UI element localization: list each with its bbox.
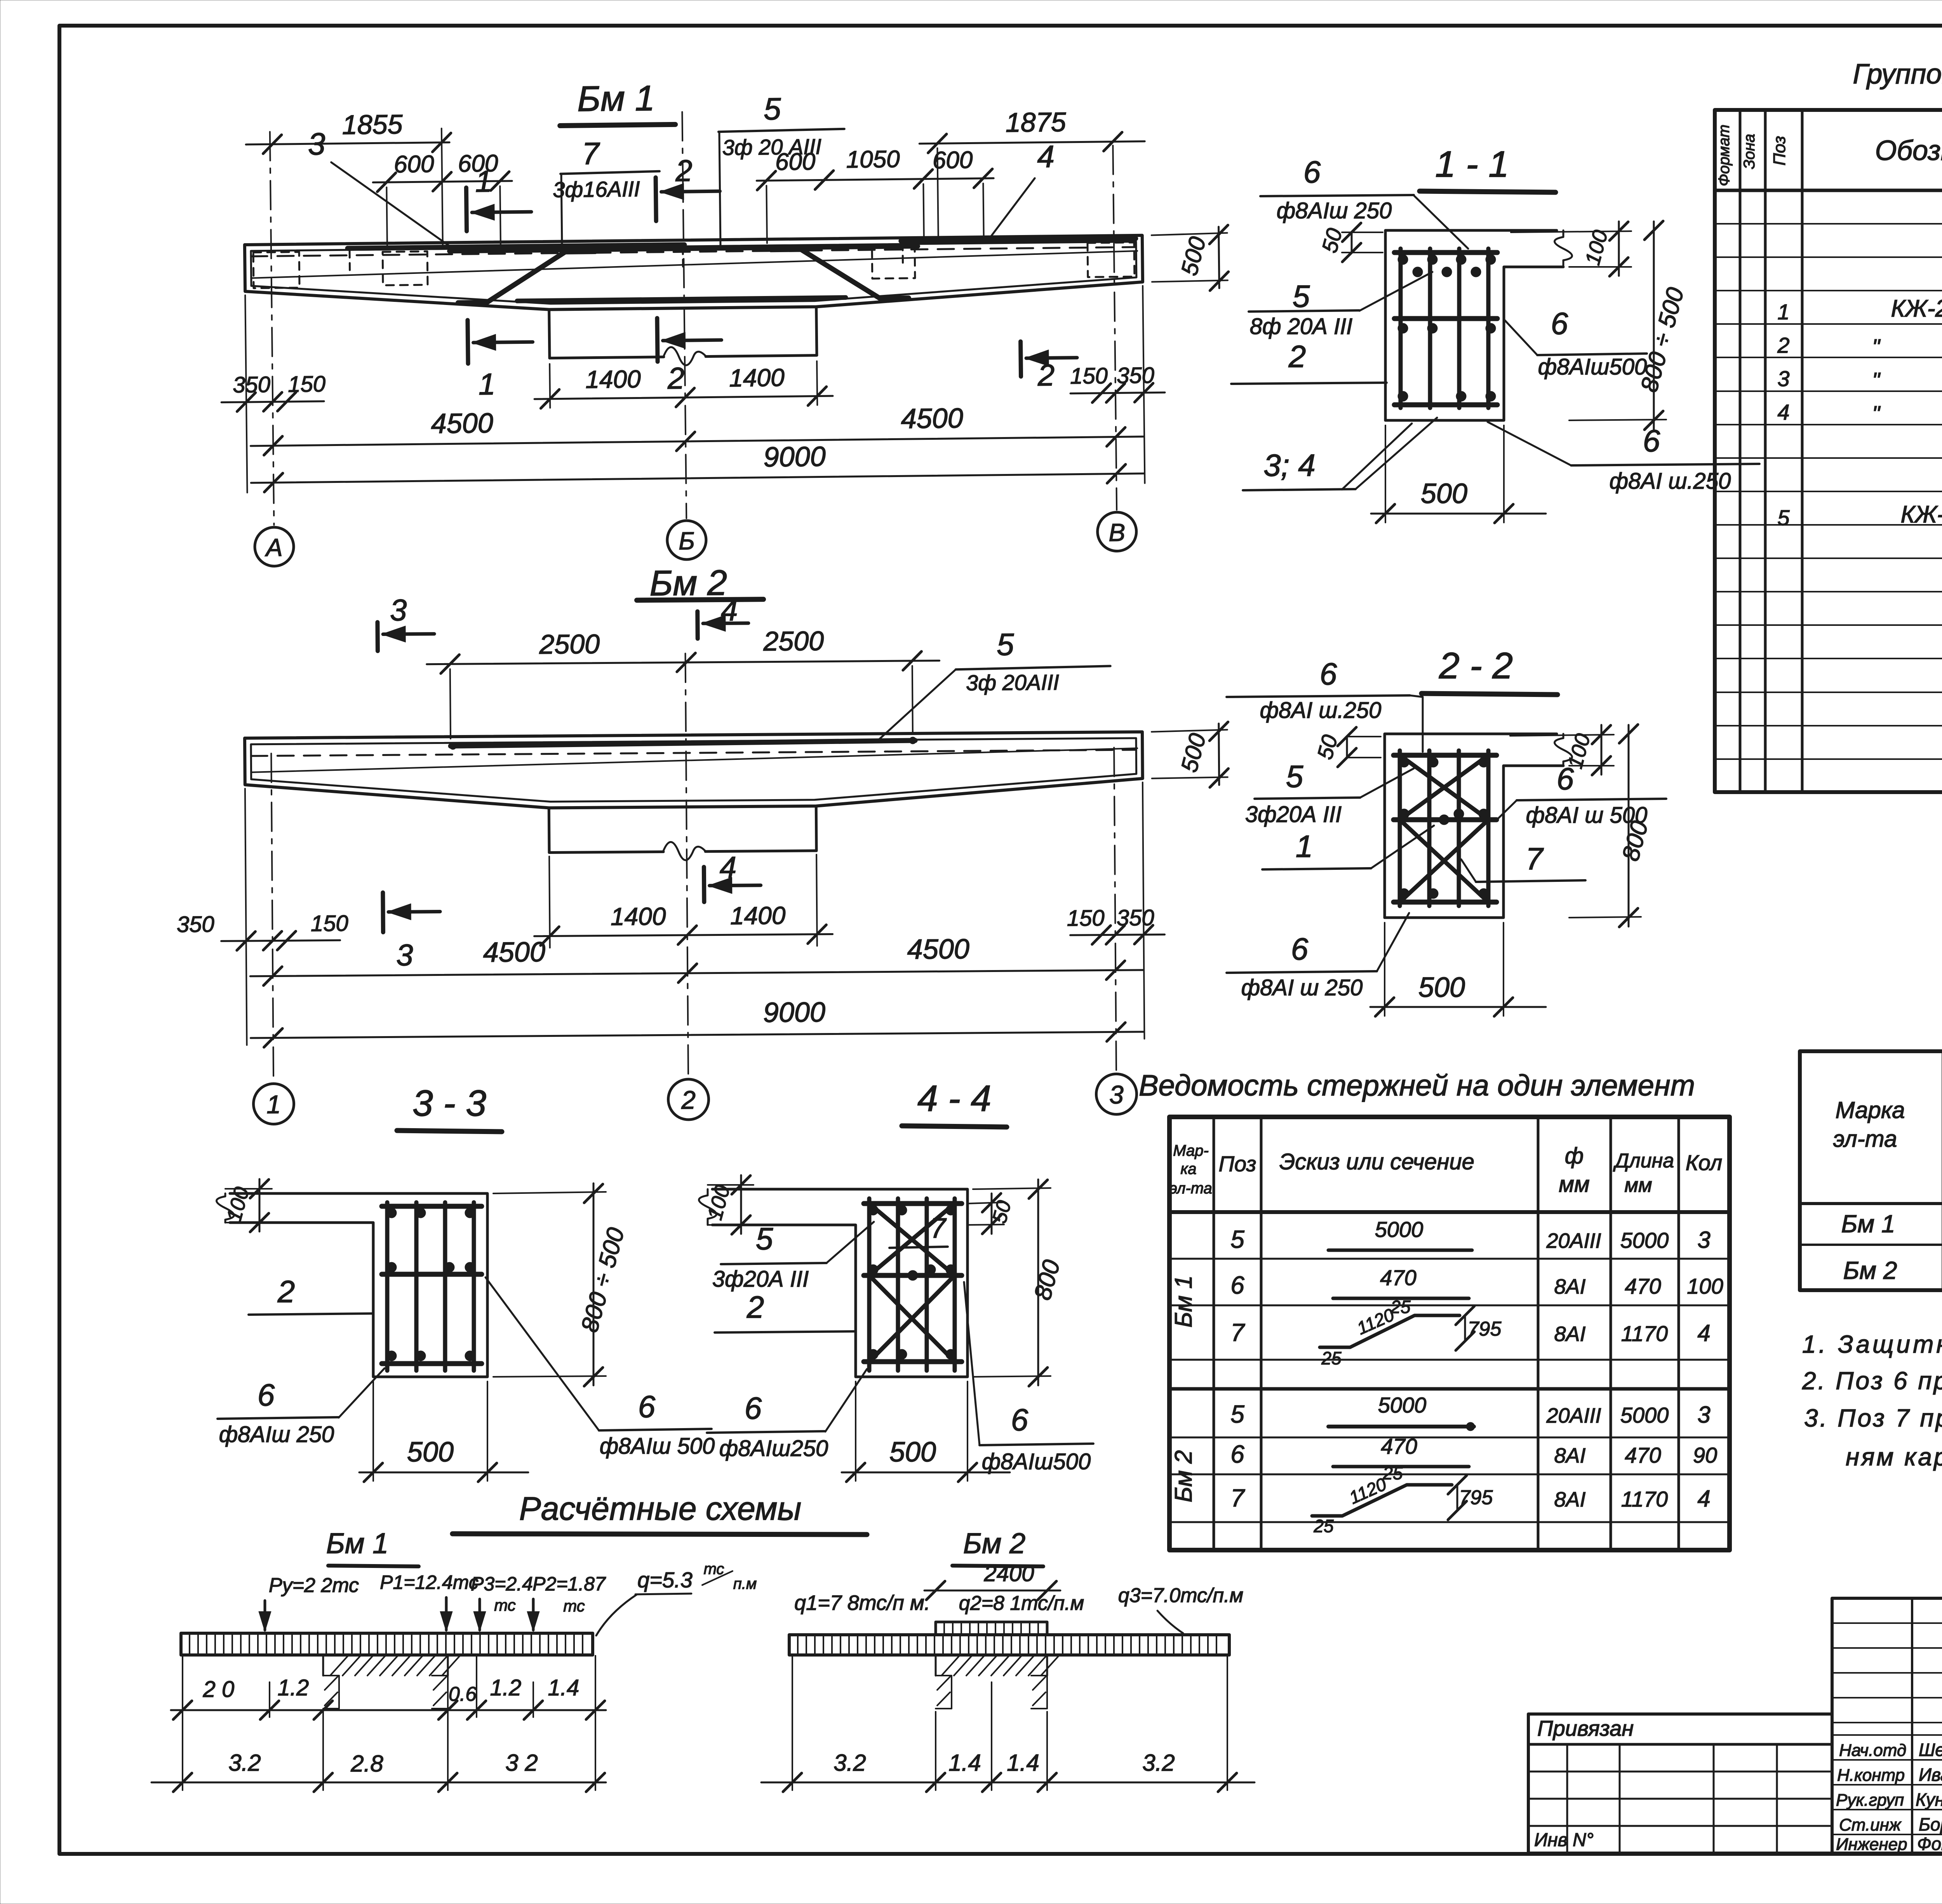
scheme Бм1 dims row1 [182, 1656, 183, 1717]
svg-text:1.4: 1.4 [1007, 1750, 1039, 1776]
section 1-1 dim 800-500 [1569, 420, 1666, 420]
svg-text:4: 4 [1777, 400, 1789, 424]
dimension 2500 2500 [450, 669, 451, 739]
table Ведомость стержней grid [1169, 1117, 1730, 1550]
dimension 1855 [442, 129, 443, 247]
svg-text:1: 1 [1296, 829, 1313, 864]
svg-text:Обозначение: Обозначение [1875, 135, 1942, 166]
beam Бм1 dashed cage quarter right [872, 245, 915, 279]
svg-text:q3=7.0тс/п.м: q3=7.0тс/п.м [1118, 1584, 1243, 1607]
svg-text:2400: 2400 [983, 1561, 1034, 1586]
svg-text:3.2: 3.2 [1142, 1750, 1175, 1776]
svg-text:4500: 4500 [431, 408, 493, 439]
section 4-4 middle bar [864, 1273, 962, 1278]
svg-text:8АI: 8АI [1554, 1488, 1585, 1511]
svg-text:Поз: Поз [1218, 1151, 1256, 1176]
svg-text:3: 3 [396, 938, 413, 972]
svg-text:Бм 2: Бм 2 [1843, 1256, 1897, 1284]
svg-text:3 2: 3 2 [505, 1750, 538, 1776]
dimension 150 350 right [1143, 286, 1145, 483]
svg-text:2: 2 [1037, 358, 1055, 392]
svg-text:1.2: 1.2 [278, 1675, 309, 1700]
svg-text:КЖ-29: КЖ-29 [1891, 295, 1942, 322]
svg-text:q=5.3: q=5.3 [637, 1568, 693, 1592]
svg-text:Py=2 2тс: Py=2 2тс [269, 1574, 359, 1597]
svg-text:5000: 5000 [1378, 1393, 1427, 1417]
svg-text:Ст.инж: Ст.инж [1839, 1815, 1902, 1834]
svg-text:6: 6 [745, 1391, 762, 1425]
svg-text:3.2: 3.2 [228, 1750, 261, 1776]
section 3-3 dim 800-500 [493, 1192, 606, 1193]
beam Бм1 middle support [549, 310, 550, 358]
beam Бм1 bottom bars [517, 298, 846, 301]
dimension 1400 1400 [550, 364, 550, 408]
svg-text:1.2: 1.2 [490, 1675, 522, 1700]
svg-text:А: А [264, 533, 282, 561]
svg-text:Фоменко: Фоменко [1917, 1834, 1942, 1854]
axis line В [1113, 146, 1117, 510]
svg-text:4: 4 [721, 593, 738, 627]
svg-text:1: 1 [266, 1090, 281, 1118]
svg-text:3.2: 3.2 [834, 1750, 866, 1776]
svg-text:Ведомость стержней на один эле: Ведомость стержней на один элемент [1139, 1069, 1695, 1102]
scheme Бм2 middle support hatch [935, 1655, 937, 1676]
svg-text:эл-та: эл-та [1169, 1180, 1212, 1197]
svg-text:4500: 4500 [901, 403, 963, 435]
svg-text:1: 1 [479, 367, 496, 401]
section 3-3 dim 500 [372, 1381, 374, 1481]
svg-text:9000: 9000 [763, 997, 826, 1028]
section 1-1 dim 500 [1385, 425, 1386, 523]
svg-text:Эскиз или сечение: Эскиз или сечение [1279, 1149, 1474, 1174]
scheme Бм2 dims [792, 1656, 793, 1790]
axis circle Б [667, 521, 706, 560]
svg-text:25: 25 [1390, 1297, 1411, 1317]
scheme Бм1 force arrows [264, 1601, 266, 1630]
svg-text:25: 25 [1313, 1516, 1334, 1536]
svg-text:Мар-: Мар- [1173, 1142, 1209, 1159]
section 2-2 bent bar X bottom [1400, 820, 1488, 902]
svg-text:4: 4 [1697, 1320, 1710, 1346]
svg-text:Длина: Длина [1613, 1150, 1674, 1172]
dimension 4500 4500 [251, 437, 1144, 446]
svg-text:3; 4: 3; 4 [1263, 448, 1315, 483]
svg-text:1 - 1: 1 - 1 [1435, 144, 1509, 185]
svg-text:2: 2 [1288, 339, 1306, 374]
svg-text:ням каркасов КР 11, КР 12,: ням каркасов КР 11, КР 12, высота шва hш… [1846, 1443, 1942, 1471]
svg-text:500: 500 [407, 1437, 454, 1468]
dimension 4500 4500 Бм2 [250, 970, 1143, 976]
svg-text:2: 2 [277, 1274, 295, 1309]
svg-text:2.8: 2.8 [350, 1751, 383, 1777]
svg-text:1875: 1875 [1005, 107, 1067, 138]
svg-text:500: 500 [889, 1437, 936, 1468]
svg-text:В: В [1108, 518, 1125, 546]
svg-text:7: 7 [582, 136, 600, 171]
svg-text:2: 2 [1777, 333, 1789, 357]
svg-text:ф: ф [1565, 1143, 1584, 1169]
section 3-3 stirrup verticals [385, 1202, 390, 1371]
section 2-2 dim 800 [1569, 917, 1641, 918]
svg-text:Бм 2: Бм 2 [963, 1527, 1026, 1559]
beam Бм1 bent bar left pos7 [458, 252, 595, 303]
svg-text:6: 6 [1303, 155, 1321, 189]
svg-text:5: 5 [997, 627, 1015, 662]
svg-text:Кунцевич: Кунцевич [1916, 1789, 1942, 1810]
section mark 1 top [466, 188, 466, 231]
dimension 500 end depth Бм1 [1152, 233, 1227, 235]
svg-text:1400: 1400 [611, 902, 666, 930]
dimension 9000 [251, 474, 1144, 483]
axis line 3 [1114, 747, 1116, 1074]
beam Бм1 thin soffit line [252, 251, 1137, 278]
svg-text:2 0: 2 0 [203, 1677, 235, 1702]
beam Бм1 dashed stirrup cage left end [253, 252, 299, 288]
svg-text:600: 600 [775, 148, 816, 176]
svg-text:1170: 1170 [1621, 1487, 1668, 1511]
title block personnel columns [1832, 1598, 1942, 1853]
svg-text:3: 3 [1109, 1080, 1124, 1109]
svg-text:ф8АIш250: ф8АIш250 [719, 1436, 828, 1461]
axis line А [270, 132, 274, 525]
svg-text:150: 150 [1070, 363, 1108, 389]
svg-text:Зона: Зона [1741, 134, 1758, 169]
svg-text:350: 350 [1117, 905, 1154, 931]
svg-text:ф8АIш 250: ф8АIш 250 [1277, 198, 1392, 223]
section 2-2 top bar [1394, 753, 1497, 758]
section 2-2 middle bar [1394, 817, 1497, 822]
axis circle 1 [253, 1084, 294, 1124]
beam Бм1 outline [245, 235, 1143, 313]
svg-text:1400: 1400 [585, 365, 641, 393]
svg-text:6: 6 [1291, 932, 1309, 966]
section 4-4 concrete outline [712, 1189, 968, 1377]
svg-text:P3=2.4: P3=2.4 [471, 1573, 533, 1595]
beam Бм1 dashed cage right end [1088, 242, 1135, 277]
svg-text:": " [1872, 401, 1881, 426]
svg-text:6: 6 [638, 1389, 656, 1424]
axis circle В [1097, 512, 1136, 551]
svg-text:25: 25 [1321, 1348, 1342, 1368]
section mark 2 right [1018, 341, 1023, 376]
svg-text:25: 25 [1382, 1463, 1403, 1483]
svg-text:Формат: Формат [1716, 125, 1733, 186]
svg-text:470: 470 [1380, 1265, 1416, 1290]
section 1-1 rebar dots [1398, 254, 1408, 265]
svg-text:8АI: 8АI [1554, 1275, 1585, 1298]
svg-text:3ф 20АIII: 3ф 20АIII [966, 670, 1059, 695]
svg-text:600: 600 [394, 151, 434, 178]
svg-text:мм: мм [1624, 1174, 1652, 1197]
svg-text:3: 3 [1697, 1402, 1710, 1428]
svg-text:1050: 1050 [846, 146, 900, 173]
section 1-1 dim 50 [1351, 232, 1353, 253]
beam Бм2 top bars pos5 [451, 740, 915, 746]
section mark 3 top [375, 622, 380, 651]
svg-text:20АIII: 20АIII [1546, 1229, 1601, 1252]
svg-text:5: 5 [1230, 1225, 1244, 1253]
beam Бм1 mesh C3 bar [348, 245, 684, 248]
axis line 2 [686, 653, 689, 1077]
scheme Бм2 load band [789, 1635, 1229, 1655]
section 2-2 dim 500 [1384, 923, 1385, 1016]
beam Бм2 stirrup dashed line [251, 750, 1136, 756]
svg-text:350: 350 [1117, 362, 1154, 388]
svg-text:470: 470 [1625, 1443, 1661, 1467]
svg-text:4500: 4500 [907, 934, 969, 965]
svg-text:ф8АI ш.250: ф8АI ш.250 [1610, 469, 1731, 494]
section mark 4 top [695, 611, 700, 639]
section 4-4 dim 800 [973, 1188, 1051, 1189]
section 1-1 middle bar [1394, 316, 1497, 321]
svg-text:8ф 20А III: 8ф 20А III [1250, 314, 1352, 339]
svg-text:1.4: 1.4 [548, 1675, 579, 1700]
svg-text:Расчётные схемы: Расчётные схемы [519, 1490, 802, 1527]
scheme Бм1 load band [181, 1633, 593, 1655]
svg-text:ф8АI ш.250: ф8АI ш.250 [1260, 698, 1382, 723]
svg-text:6: 6 [1230, 1271, 1244, 1299]
svg-text:Групповая спецификация для мон: Групповая спецификация для монолитных эл… [1853, 59, 1942, 90]
svg-text:6: 6 [258, 1378, 275, 1412]
section 4-4 rebar dots [868, 1205, 878, 1215]
section 4-4 bent bar X bottom [869, 1275, 955, 1362]
svg-text:Привязан: Привязан [1537, 1716, 1634, 1740]
svg-text:470: 470 [1381, 1434, 1417, 1458]
svg-text:3ф16АIII: 3ф16АIII [553, 176, 640, 202]
svg-text:2: 2 [675, 153, 693, 188]
svg-text:Рук.груп: Рук.груп [1836, 1791, 1904, 1810]
scheme Бм1 dims row2 [182, 1717, 183, 1790]
svg-text:1.4: 1.4 [948, 1750, 981, 1776]
title block Привязан table [1528, 1714, 1832, 1853]
svg-text:ка: ка [1180, 1160, 1196, 1178]
svg-text:Марка: Марка [1835, 1097, 1905, 1123]
svg-text:ф8АIш500: ф8АIш500 [1538, 354, 1647, 380]
svg-text:": " [1872, 334, 1881, 359]
svg-text:ф8АIш500: ф8АIш500 [982, 1449, 1091, 1474]
axis line 1 [271, 754, 273, 1080]
svg-text:3: 3 [1777, 366, 1789, 391]
section 3-3 bottom bar [382, 1361, 482, 1366]
section 1-1 top bar [1394, 250, 1497, 255]
beam Бм1 stirrup dashed line [251, 247, 1136, 256]
section 2-2 stirrup verticals [1398, 751, 1402, 906]
svg-text:150: 150 [1067, 906, 1105, 931]
svg-text:5: 5 [1777, 505, 1790, 530]
svg-text:6: 6 [1230, 1440, 1244, 1468]
section mark 2 top [656, 178, 656, 221]
section 4-4 bottom bar [864, 1359, 962, 1364]
svg-text:тс: тс [704, 1561, 724, 1578]
svg-text:P1=12.4тс: P1=12.4тс [380, 1571, 479, 1593]
beam Бм1 bent bar right pos7 [771, 248, 908, 300]
svg-text:Инв N°: Инв N° [1534, 1830, 1594, 1850]
section 2-2 concrete outline [1385, 734, 1557, 918]
svg-text:600: 600 [933, 146, 973, 174]
svg-text:1170: 1170 [1621, 1321, 1668, 1346]
svg-text:5000: 5000 [1620, 1228, 1669, 1252]
axis circle 2 [668, 1079, 709, 1120]
svg-text:тс: тс [494, 1596, 516, 1614]
svg-text:Бм 1: Бм 1 [326, 1527, 389, 1559]
dimension 9000 Бм2 [251, 1032, 1144, 1038]
section 4-4 stirrup verticals [867, 1198, 872, 1371]
svg-text:1400: 1400 [729, 363, 785, 392]
section 2-2 bottom bar [1394, 900, 1497, 905]
svg-text:2500: 2500 [539, 629, 600, 660]
dimension 350 150 left [245, 295, 247, 493]
beam Бм2 outline [245, 732, 1143, 810]
svg-text:2: 2 [681, 1085, 696, 1114]
svg-text:5000: 5000 [1375, 1217, 1423, 1242]
svg-text:7: 7 [1526, 841, 1544, 876]
svg-text:500: 500 [1418, 972, 1465, 1003]
svg-text:5: 5 [764, 92, 781, 126]
svg-text:1: 1 [1777, 300, 1789, 324]
svg-text:мм: мм [1559, 1172, 1590, 1197]
section 4-4 bent bar X top [869, 1204, 955, 1275]
dimension 150 350 right Бм2 [1143, 782, 1145, 1039]
section 4-4 dim 500 [855, 1381, 856, 1481]
svg-text:Поз: Поз [1770, 136, 1789, 165]
svg-text:q1=7 8тс/п м.: q1=7 8тс/п м. [794, 1591, 930, 1615]
dimension 600+600 [386, 187, 387, 246]
svg-text:": " [1872, 368, 1881, 392]
section mark 3 bottom [381, 893, 385, 932]
svg-text:Н.контр: Н.контр [1837, 1766, 1905, 1785]
table спецификация grid [1715, 110, 1942, 792]
section 1-1 stirrup verticals [1399, 249, 1403, 408]
svg-text:2: 2 [747, 1290, 764, 1324]
section mark 2 bottom [657, 318, 658, 362]
svg-text:6: 6 [1551, 306, 1568, 341]
section 4-4 dim 50 [967, 1202, 1004, 1204]
svg-text:600: 600 [458, 150, 498, 177]
svg-text:Бм 1: Бм 1 [1841, 1210, 1895, 1238]
svg-text:20АIII: 20АIII [1546, 1404, 1601, 1427]
svg-text:470: 470 [1625, 1274, 1661, 1298]
svg-text:q2=8 1тс/п.м: q2=8 1тс/п.м [959, 1592, 1084, 1615]
dimension 1875 [937, 148, 938, 239]
svg-text:1400: 1400 [730, 901, 786, 930]
section 2-2 rebar dots [1399, 757, 1409, 767]
svg-text:Нач.отд: Нач.отд [1839, 1741, 1906, 1760]
svg-text:4 - 4: 4 - 4 [917, 1078, 991, 1119]
section 2-2 dim 100 [1510, 735, 1614, 736]
section 3-3 top bar [382, 1204, 482, 1209]
svg-text:Инженер: Инженер [1836, 1835, 1907, 1854]
svg-text:8АI: 8АI [1554, 1322, 1585, 1346]
svg-text:9000: 9000 [763, 441, 826, 473]
section 1-1 concrete outline [1385, 230, 1557, 420]
section 1-1 dim 100 [1511, 231, 1631, 232]
svg-text:п.м: п.м [733, 1575, 757, 1592]
beam Бм1 dashed cage quarter left [383, 251, 428, 285]
svg-text:0.6: 0.6 [449, 1683, 477, 1705]
svg-text:5: 5 [1293, 279, 1310, 314]
section 4-4 dim 100 [708, 1184, 753, 1186]
svg-text:КЖ-25: КЖ-25 [1900, 501, 1942, 528]
svg-text:5: 5 [1230, 1400, 1244, 1428]
axis circle А [255, 527, 294, 566]
svg-text:P2=1.87: P2=1.87 [532, 1573, 606, 1595]
svg-text:795: 795 [1459, 1486, 1493, 1509]
svg-text:Бм 1: Бм 1 [1170, 1275, 1197, 1328]
svg-text:4: 4 [1037, 139, 1055, 174]
svg-text:5000: 5000 [1620, 1403, 1669, 1427]
svg-text:100: 100 [1687, 1274, 1723, 1298]
section mark 1 bottom [468, 320, 468, 364]
svg-text:150: 150 [311, 911, 348, 936]
svg-text:6: 6 [1320, 657, 1337, 691]
svg-text:150: 150 [288, 371, 325, 397]
svg-text:3ф20А III: 3ф20А III [712, 1266, 809, 1292]
dimension 350 150 left Бм2 [245, 789, 247, 1045]
svg-text:3 - 3: 3 - 3 [412, 1083, 486, 1124]
dimension 600 1050 600 [766, 186, 767, 243]
svg-text:1855: 1855 [342, 109, 403, 140]
svg-text:5: 5 [1286, 759, 1303, 794]
beam Бм1 mesh C4 bar [901, 239, 1136, 241]
svg-text:3: 3 [390, 593, 407, 627]
svg-text:500: 500 [1421, 478, 1467, 509]
svg-text:5: 5 [756, 1221, 773, 1256]
svg-text:ф8АIш 250: ф8АIш 250 [219, 1422, 334, 1447]
svg-text:ф8АI ш 250: ф8АI ш 250 [1241, 975, 1363, 1000]
svg-text:4: 4 [719, 850, 736, 884]
svg-text:7: 7 [930, 1213, 947, 1244]
beam Бм2 inner outline [251, 738, 1136, 804]
section 3-3 concrete outline [230, 1193, 487, 1377]
svg-text:ф8АIш 500: ф8АIш 500 [600, 1434, 715, 1459]
beam Бм1 top bars pos5 [449, 246, 918, 251]
beam Бм1 inner outline [251, 242, 1136, 307]
svg-text:6: 6 [1011, 1402, 1028, 1437]
section 2-2 dim 50 [1346, 737, 1348, 758]
svg-text:3: 3 [1697, 1227, 1710, 1253]
svg-text:4: 4 [1697, 1486, 1710, 1512]
section 2-2 bent bar X top [1400, 755, 1488, 820]
svg-text:7: 7 [1230, 1484, 1245, 1512]
svg-text:Шейко: Шейко [1919, 1740, 1942, 1760]
dimension 500 end depth Бм2 [1152, 730, 1227, 732]
section 1-1 bottom bar [1394, 402, 1497, 408]
svg-text:3. Поз 7 приварить В перес: 3. Поз 7 приварить В пересечении к продо… [1804, 1404, 1942, 1432]
section mark 4 bottom [702, 867, 706, 902]
svg-text:Иванов: Иванов [1919, 1765, 1942, 1785]
svg-text:795: 795 [1468, 1318, 1502, 1340]
svg-text:7: 7 [1230, 1319, 1245, 1347]
svg-text:2 - 2: 2 - 2 [1439, 645, 1513, 686]
section 3-3 dim 100 [225, 1188, 272, 1190]
section 3-3 middle bar [382, 1272, 482, 1277]
svg-text:2. Поз 6 приварить в пересе: 2. Поз 6 приварить в пересечении с плоск… [1802, 1367, 1942, 1395]
svg-text:2500: 2500 [763, 626, 824, 657]
beam Бм2 thin soffit line [252, 748, 1137, 772]
svg-text:350: 350 [177, 912, 214, 937]
svg-text:тс: тс [563, 1597, 585, 1615]
svg-text:Боровик: Боровик [1919, 1814, 1942, 1834]
svg-text:4500: 4500 [483, 937, 546, 968]
svg-text:8АI: 8АI [1554, 1444, 1585, 1467]
svg-text:Кол: Кол [1686, 1150, 1723, 1175]
svg-text:350: 350 [233, 372, 270, 397]
axis line Б [682, 112, 686, 518]
svg-text:Бм 1: Бм 1 [577, 78, 655, 119]
section 4-4 top bar [864, 1201, 962, 1206]
svg-text:1. Защитный слой бетона для ра: 1. Защитный слой бетона для рабочей арма… [1802, 1330, 1942, 1358]
beam Бм2 middle support [548, 808, 551, 853]
